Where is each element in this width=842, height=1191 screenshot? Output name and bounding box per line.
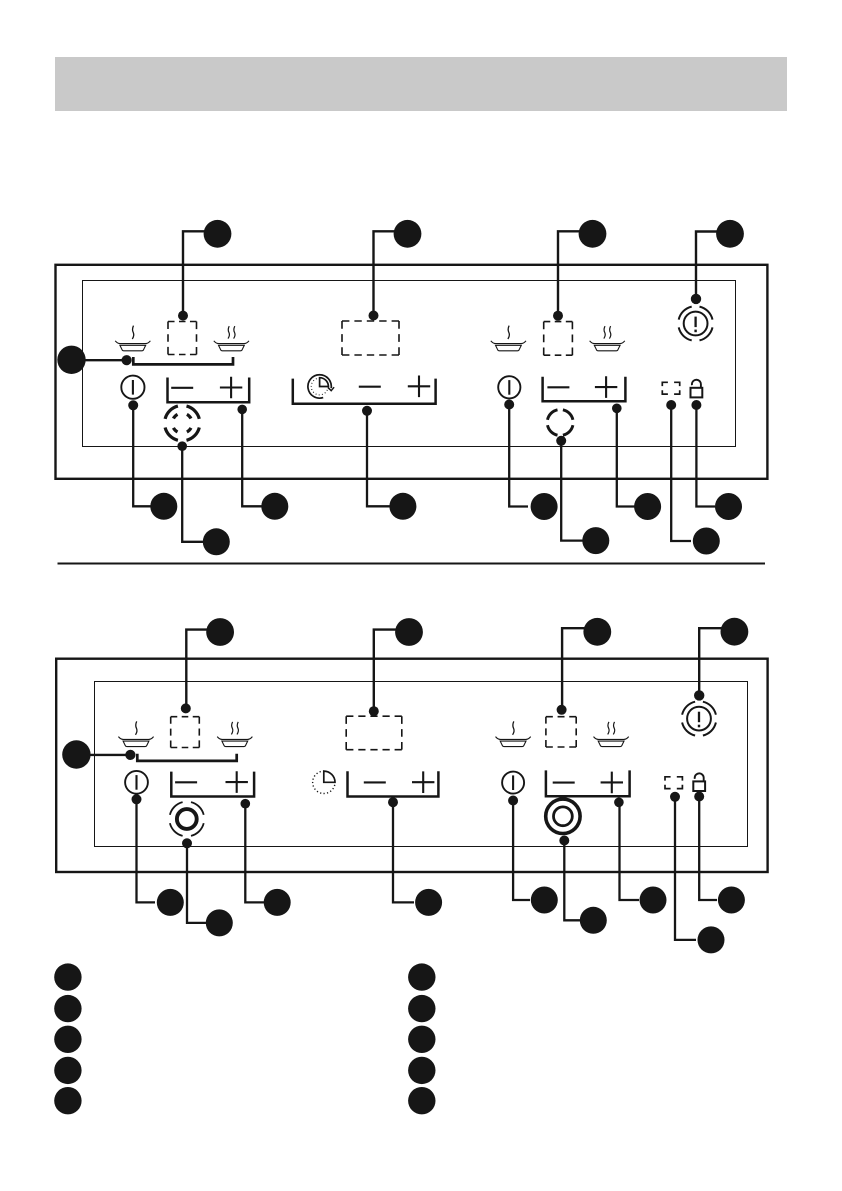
callout B5 (left): [62, 740, 90, 768]
junction dot on warning icon B: [694, 690, 704, 700]
legend callout L5: [54, 1087, 81, 1114]
junction dot timer B: [388, 797, 398, 807]
display square A-left: [168, 322, 197, 355]
separator rule: [58, 563, 766, 565]
warning indicator B outer arcs: [682, 702, 716, 736]
lock icon A: [691, 380, 703, 398]
timer plus A: [408, 376, 430, 398]
wire boost ring to callout: [564, 841, 581, 921]
junction dot plus B-left: [241, 799, 251, 809]
lock icon B: [693, 773, 705, 791]
legend callout R2: [408, 995, 435, 1022]
panel A outer frame: [56, 265, 768, 479]
junction dot power A-left: [128, 400, 138, 410]
legend callout R3: [408, 1026, 435, 1053]
wire callout A3 to right display: [558, 231, 593, 315]
power button B-right: [502, 772, 524, 794]
panel A inner frame: [83, 281, 736, 447]
junction dot zone bracket A: [122, 355, 132, 365]
booster outer arcs B-left: [170, 802, 204, 836]
callout A2: [394, 220, 422, 248]
wire callout B5 to zone bracket: [76, 754, 130, 756]
pan icon high-heat B-right: [594, 722, 629, 747]
power button A-left: [121, 376, 144, 399]
junction dot on warning icon A: [691, 294, 701, 304]
junction dot on left display A: [178, 311, 188, 321]
wire callout B2 to timer display: [374, 630, 409, 712]
wire lock B to callout: [699, 797, 717, 901]
pause icon B: [665, 777, 682, 789]
booster ring icon B-left: [177, 809, 197, 829]
junction dot zone bracket B: [125, 750, 135, 760]
zone select bracket A-left: [133, 357, 233, 364]
display square B-right: [546, 717, 576, 747]
wire pause B to callout: [675, 797, 696, 940]
minus key A-right: [547, 386, 569, 388]
wire power A-right to callout: [509, 405, 528, 507]
callout A14: [715, 493, 742, 520]
minus key B-right: [553, 782, 575, 784]
power button A-right: [498, 376, 520, 398]
junction dot power A-right: [504, 400, 514, 410]
callout A12: [634, 493, 661, 520]
wire callout A4 to warning icon: [696, 232, 730, 299]
junction dot on right display A: [553, 311, 563, 321]
plus key A-right: [595, 376, 617, 398]
bridge icon inner A-left: [173, 414, 191, 432]
wire callout A1 to left display: [183, 231, 218, 315]
callout A1: [204, 220, 232, 248]
plus key B-right: [601, 772, 623, 794]
timer icon B: [313, 771, 335, 793]
junction dot pause A: [666, 400, 676, 410]
wire timer to callout: [367, 411, 390, 507]
callout B13: [698, 926, 725, 953]
callout B10: [531, 887, 558, 914]
legend callout L4: [54, 1057, 81, 1084]
callout A11: [582, 527, 609, 554]
header gray bar: [55, 57, 787, 111]
wire power A-left to callout: [133, 405, 153, 506]
callout B12: [640, 887, 667, 914]
junction dot power B-left: [132, 794, 142, 804]
timer display A: [342, 321, 399, 355]
legend callout R5: [408, 1087, 435, 1114]
callout A13: [693, 528, 720, 555]
wire callout A5 to zone bracket: [72, 359, 127, 361]
wire timer B to callout: [393, 802, 414, 902]
callout A10: [531, 493, 558, 520]
callout A5 (left): [57, 346, 85, 374]
junction dot boost B-right: [559, 836, 569, 846]
bridge icon outer A-left: [165, 406, 199, 440]
warning indicator B: [687, 707, 711, 731]
junction dot plus B-right: [614, 798, 624, 808]
junction dot keep-warm A: [556, 436, 566, 446]
minus-plus bracket B-right: [546, 770, 630, 796]
junction dot booster B-left: [182, 838, 192, 848]
junction dot on left display B: [181, 703, 191, 713]
power boost ring icon B-right: [546, 799, 580, 833]
callout B3: [583, 618, 611, 646]
callout A9: [389, 493, 416, 520]
junction dot timer A: [362, 406, 372, 416]
wire keep-warm to callout: [561, 441, 584, 541]
minus-plus bracket B-left: [171, 772, 254, 797]
minus-plus bracket A-right: [543, 377, 626, 402]
warning indicator A outer arcs: [679, 307, 713, 341]
wire lock icon to callout: [696, 405, 715, 507]
callout A7: [203, 528, 230, 555]
callout B8: [264, 889, 291, 916]
wire booster to callout: [187, 843, 207, 923]
wire plus A-right to callout: [617, 408, 636, 506]
legend callout R4: [408, 1057, 435, 1084]
callout A4: [716, 220, 744, 248]
wire power B-right to callout: [513, 801, 530, 901]
wire callout B3 to right display: [562, 628, 597, 709]
junction dot on right display B: [557, 705, 567, 715]
junction dot plus A-right: [612, 404, 622, 414]
zone select bracket B-left: [137, 754, 236, 761]
junction dot lock A: [691, 400, 701, 410]
callout A6: [150, 493, 177, 520]
junction dot bridge A-left: [177, 441, 187, 451]
callout B14: [718, 887, 745, 914]
junction dot lock B: [694, 792, 704, 802]
wire callout B1 to left display: [186, 630, 220, 709]
callout A8: [261, 493, 288, 520]
callout B4: [721, 618, 749, 646]
pan icon low-heat A-left: [115, 326, 150, 351]
panel B outer frame: [56, 659, 767, 872]
plus key A-left: [220, 377, 242, 399]
pan icon low-heat B-left: [118, 721, 153, 746]
timer bracket A: [293, 379, 436, 404]
wire bridge icon to callout: [182, 446, 205, 542]
pause icon A: [662, 382, 679, 394]
timer display B: [346, 716, 402, 750]
junction dot pause B: [670, 792, 680, 802]
wire plus B-right to callout: [620, 802, 640, 900]
timer bracket B: [348, 771, 439, 796]
panel B inner frame: [95, 682, 748, 847]
wire power B-left to callout: [137, 799, 156, 902]
pan icon low-heat A-right: [491, 326, 526, 351]
junction dot power B-right: [508, 796, 518, 806]
plus key B-left: [226, 771, 248, 793]
junction dot on timer display B: [369, 706, 379, 716]
timer plus B: [412, 771, 434, 793]
wire plus B-left to callout: [245, 804, 265, 903]
display square A-right: [544, 322, 573, 356]
wire callout A2 to timer display: [374, 231, 408, 315]
power button B-left: [125, 771, 148, 794]
pan icon high-heat A-left: [214, 326, 249, 351]
callout A3: [579, 220, 607, 248]
pan icon low-heat B-right: [496, 721, 531, 746]
callout B6: [157, 889, 184, 916]
minus key A-left: [171, 387, 193, 389]
callout B7: [206, 909, 233, 936]
display square B-left: [171, 717, 200, 748]
pan icon high-heat B-left: [217, 722, 252, 747]
timer minus A: [359, 386, 381, 388]
wire plus A-left to callout: [242, 409, 263, 506]
callout B11: [580, 907, 607, 934]
legend callout R1: [408, 963, 435, 990]
pan icon high-heat A-right: [590, 326, 625, 351]
callout B2: [395, 618, 423, 646]
timer minus B: [364, 781, 386, 783]
timer icon A: [311, 378, 328, 395]
warning indicator A: [684, 312, 708, 336]
wire callout B4 to warning icon: [699, 628, 734, 695]
junction dot plus A-left: [237, 405, 247, 415]
junction dot on timer display A: [369, 311, 379, 321]
callout B1: [206, 618, 234, 646]
legend callout L2: [54, 995, 81, 1022]
minus key B-left: [175, 781, 197, 783]
wire pause icon to callout: [671, 405, 691, 541]
legend callout L1: [54, 963, 81, 990]
legend callout L3: [54, 1026, 81, 1053]
callout B9: [415, 889, 442, 916]
keep-warm icon A-right: [548, 410, 573, 435]
minus-plus bracket A-left: [168, 378, 250, 403]
